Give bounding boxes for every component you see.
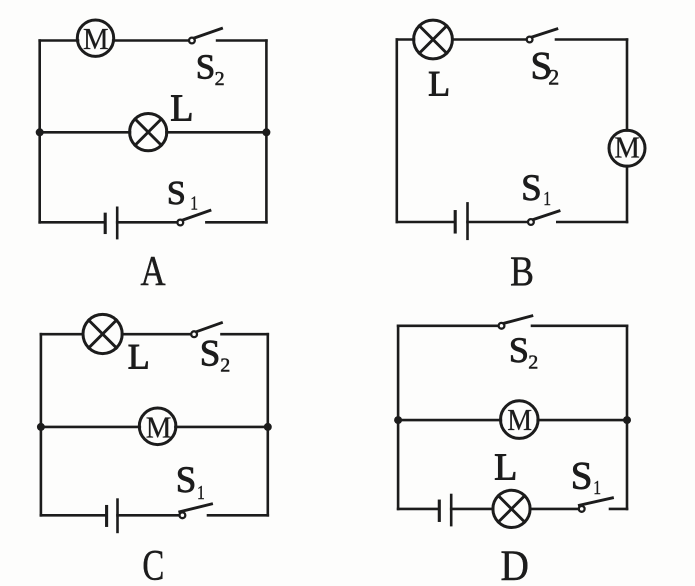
node: A left junction	[36, 128, 44, 136]
wire B right: corner down to motor	[626, 40, 629, 131]
wire C top: lamp to S2	[122, 333, 190, 336]
svg-text:M: M	[146, 411, 172, 445]
battery (circuit B) long plate	[466, 203, 469, 238]
wire D middle: left to motor	[398, 419, 501, 422]
node: A right junction	[262, 128, 270, 136]
node: C right junction	[264, 423, 272, 431]
svg-text:1: 1	[197, 481, 205, 503]
wire A right vertical	[265, 41, 268, 223]
wire C bottom: battery to S1	[118, 514, 179, 517]
wire C top: S2 contact to top-right corner	[222, 333, 268, 336]
wire A top: motor to switch S2	[113, 39, 188, 42]
wire C top-left segment	[41, 333, 83, 336]
switch S1 (circuit C) blade	[180, 504, 212, 512]
svg-text:S: S	[176, 460, 197, 501]
wire D bottom: left to battery	[398, 508, 439, 511]
wire B top: S2 contact to top-right corner	[556, 38, 627, 41]
wire A bottom: left to battery	[40, 221, 104, 224]
svg-text:S: S	[200, 333, 221, 374]
lamp L (circuit A)	[130, 114, 167, 151]
wire C right vertical	[266, 334, 269, 515]
svg-text:M: M	[614, 130, 640, 164]
switch S2 (circuit D) blade	[504, 316, 532, 323]
wire C middle: left to motor	[41, 426, 140, 429]
motor M (circuit A)	[77, 20, 113, 56]
wire B left vertical	[395, 40, 398, 223]
svg-text:2: 2	[548, 64, 559, 89]
svg-text:2: 2	[215, 68, 225, 90]
wire A middle: lamp to right	[166, 131, 266, 134]
wire B right: motor down to bottom corner	[626, 166, 629, 222]
wire D bottom: S1 contact to bottom-right corner	[610, 508, 627, 511]
svg-text:M: M	[507, 404, 532, 438]
svg-text:L: L	[494, 447, 517, 489]
wire D top: S2 contact to top-right corner	[532, 324, 627, 327]
svg-text:S: S	[196, 47, 215, 86]
switch S1 (circuit D) pivot	[579, 506, 585, 512]
wire A bottom: S1 contact to bottom-right corner	[206, 221, 266, 224]
wire A top-left segment	[40, 39, 78, 42]
wire D right vertical	[626, 326, 629, 509]
motor M (circuit C)	[139, 408, 176, 445]
wire A left vertical	[38, 41, 41, 223]
switch S1 (circuit B) blade	[533, 211, 559, 220]
wire D top: left corner to S2	[398, 324, 498, 327]
switch S1 (circuit B) pivot	[528, 219, 534, 225]
wire B bottom: left to battery	[397, 221, 454, 224]
wire A middle: left to lamp	[40, 131, 130, 134]
wire C left vertical	[40, 334, 43, 515]
svg-text:C: C	[142, 542, 164, 586]
battery (circuit A) short plate	[104, 214, 107, 232]
wire B top: lamp to S2	[452, 38, 525, 41]
svg-text:S: S	[509, 330, 529, 370]
battery (circuit D) short plate	[438, 501, 441, 520]
svg-text:L: L	[128, 336, 150, 376]
switch S2 (circuit A) pivot	[189, 38, 195, 44]
motor M (circuit B)	[609, 130, 645, 166]
node: C left junction	[37, 423, 45, 431]
switch S2 (circuit D) pivot	[499, 323, 505, 329]
battery (circuit A) long plate	[116, 208, 119, 238]
svg-text:D: D	[501, 541, 529, 586]
motor M (circuit D)	[501, 401, 539, 439]
lamp L (circuit C)	[83, 314, 122, 353]
switch S2 (circuit A) blade	[194, 29, 221, 39]
svg-text:A: A	[140, 248, 165, 295]
switch S2 (circuit B) pivot	[527, 37, 533, 43]
switch S2 (circuit C) pivot	[191, 331, 197, 337]
wire A bottom: battery to S1	[117, 221, 177, 224]
svg-text:M: M	[83, 22, 109, 56]
node: D left junction	[394, 416, 402, 424]
svg-text:B: B	[510, 249, 534, 296]
node: D right junction	[623, 416, 631, 424]
battery (circuit C) short plate	[105, 507, 108, 526]
svg-text:S: S	[521, 168, 542, 209]
battery (circuit C) long plate	[116, 500, 119, 532]
wire C bottom: S1 contact to bottom-right corner	[208, 514, 268, 517]
svg-text:1: 1	[593, 476, 601, 498]
wire B top-left segment	[397, 38, 414, 41]
switch S2 (circuit C) blade	[197, 323, 222, 332]
wire B bottom: battery to S1	[468, 221, 528, 224]
svg-text:L: L	[428, 64, 450, 104]
svg-text:1: 1	[190, 192, 198, 214]
switch S1 (circuit D) blade	[579, 498, 612, 505]
lamp L (circuit D)	[493, 490, 530, 527]
switch S1 (circuit A) pivot	[177, 220, 183, 226]
wire C bottom: left to battery	[41, 514, 106, 517]
lamp L (circuit B)	[414, 20, 453, 59]
svg-text:2: 2	[220, 355, 230, 377]
switch S1 (circuit C) pivot	[180, 512, 186, 518]
svg-text:2: 2	[528, 352, 538, 374]
battery (circuit D) long plate	[450, 495, 453, 525]
svg-text:1: 1	[543, 187, 551, 209]
switch S2 (circuit B) blade	[532, 29, 557, 37]
battery (circuit B) short plate	[454, 212, 457, 232]
wire D bottom: lamp to S1	[530, 508, 578, 511]
svg-text:S: S	[167, 175, 186, 212]
switch S1 (circuit A) blade	[183, 211, 210, 221]
wire D middle: motor to right	[538, 419, 627, 422]
svg-text:S: S	[571, 455, 593, 498]
wire C middle: motor to right	[175, 426, 267, 429]
svg-text:L: L	[170, 87, 193, 129]
wire B bottom: S1 contact to bottom-right corner	[557, 221, 627, 224]
wire D bottom: battery to lamp	[451, 508, 493, 511]
wire A top: S2 contact to top-right corner	[217, 39, 266, 42]
wire D left vertical	[397, 326, 400, 509]
